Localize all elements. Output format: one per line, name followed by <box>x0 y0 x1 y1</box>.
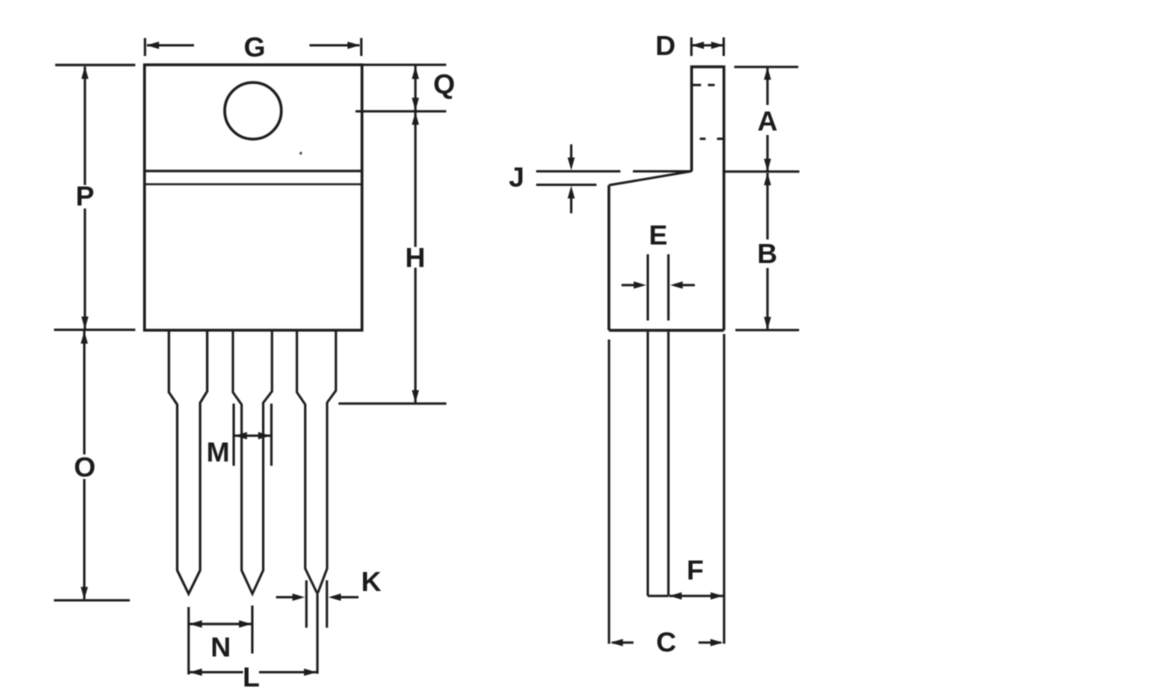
dimension F line with lead bottom <box>648 592 724 599</box>
dimension P top reference line <box>55 64 135 66</box>
dimension P vertical line with arrows <box>81 66 88 329</box>
label Q <box>433 69 455 100</box>
label O <box>74 452 96 483</box>
front view: tab groove line upper <box>145 170 363 172</box>
svg-text:B: B <box>757 238 777 269</box>
dimension C left extension line <box>608 340 610 644</box>
front view: lead 3 outline <box>297 330 336 592</box>
side view: body bottom edge <box>609 329 724 332</box>
top reference line extension right of body <box>362 64 446 66</box>
svg-text:H: H <box>405 242 425 273</box>
svg-text:C: C <box>656 627 676 658</box>
dimension A vertical line with arrows <box>764 67 771 171</box>
svg-text:L: L <box>243 662 260 693</box>
svg-text:D: D <box>655 30 675 61</box>
dimension N right extension line <box>251 606 253 654</box>
svg-text:Q: Q <box>433 69 455 100</box>
svg-text:O: O <box>74 452 96 483</box>
dimension Q/H vertical line with arrows <box>412 66 419 403</box>
dimension B vertical line with arrows <box>764 173 771 330</box>
dimension A top reference line <box>734 66 798 68</box>
dimension G ticks <box>145 38 361 56</box>
svg-text:N: N <box>211 632 231 663</box>
dimension N arrow line <box>189 620 252 627</box>
dimension C left arrow <box>610 639 633 646</box>
side view: seating plane reference line (J top) <box>536 170 799 173</box>
svg-text:F: F <box>687 554 704 585</box>
dimension O bottom reference line <box>54 599 130 601</box>
dimension J down arrow <box>568 144 575 170</box>
label A <box>757 106 777 137</box>
dimension N left extension line <box>187 607 189 675</box>
svg-text:J: J <box>509 162 525 193</box>
label N <box>211 632 231 663</box>
label M <box>206 437 229 468</box>
dimension G left arrow <box>146 42 194 49</box>
side view: body chamfer slant <box>609 171 692 185</box>
label P <box>76 181 95 212</box>
front view: tab groove line lower <box>145 183 363 185</box>
svg-text:K: K <box>361 566 381 597</box>
dimension K ticks <box>306 580 327 627</box>
front view: lead 1 outline <box>169 330 207 594</box>
dimension K left arrow <box>276 594 305 601</box>
side view: body left edge <box>608 185 611 330</box>
label G <box>244 32 266 63</box>
front view: lead 3 tip extension line (L right extension) <box>316 592 318 673</box>
label K <box>361 566 381 597</box>
label C <box>656 627 676 658</box>
dimension C right extension line <box>723 334 725 644</box>
label B <box>757 238 777 269</box>
side view: lead right edge / E extension <box>667 254 669 596</box>
front view: mounting hole <box>225 83 282 140</box>
label J <box>509 162 525 193</box>
svg-text:P: P <box>76 181 95 212</box>
svg-text:E: E <box>649 220 668 251</box>
dimension C right arrow <box>699 639 723 646</box>
svg-text:G: G <box>244 32 266 63</box>
dimension J bottom line <box>536 184 596 186</box>
dimension B bottom reference line <box>735 329 799 331</box>
dimension J up arrow <box>568 186 575 214</box>
svg-text:M: M <box>206 437 229 468</box>
dimension H bottom reference line <box>339 402 447 404</box>
side view: tab outline <box>692 67 724 331</box>
dimension O vertical line with arrows <box>81 331 88 600</box>
dimension P bottom reference line <box>54 329 135 331</box>
dimension M ticks <box>234 404 272 466</box>
label E <box>649 220 668 251</box>
label F <box>687 554 704 585</box>
label L <box>243 662 260 693</box>
dimension M double arrow <box>234 432 272 439</box>
scan speck <box>299 152 302 155</box>
dimension K right arrow <box>328 594 358 601</box>
side view: lead left edge / E extension <box>647 254 649 596</box>
front view: lead 2 outline <box>233 330 272 594</box>
dimension L arrow line <box>189 669 317 676</box>
dimension D double arrow <box>691 42 723 49</box>
label D <box>655 30 675 61</box>
svg-text:A: A <box>757 106 777 137</box>
label H <box>405 242 425 273</box>
dimension E left arrow <box>622 281 647 288</box>
dimension D ticks <box>691 37 723 56</box>
front view: package body outline <box>145 65 363 330</box>
dimension G right arrow <box>310 42 361 49</box>
dimension E right arrow <box>670 281 695 288</box>
side view: hidden hole dashes row 1 <box>692 84 714 86</box>
side view: hidden hole dashes row 2 <box>700 138 724 140</box>
dimension Q bottom reference line <box>356 110 447 112</box>
